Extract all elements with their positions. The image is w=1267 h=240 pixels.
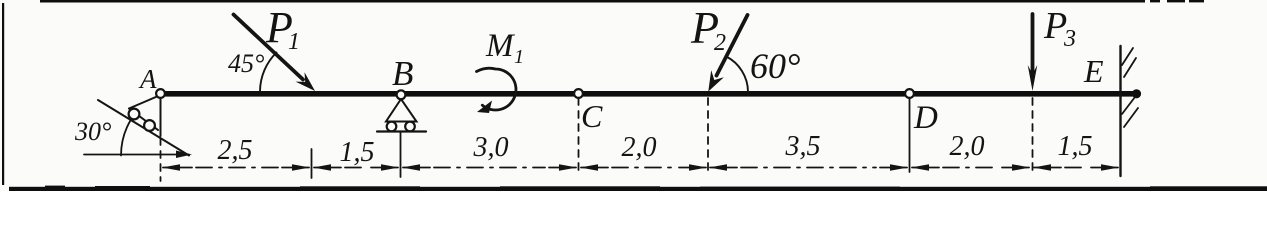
svg-text:3: 3 (1063, 26, 1076, 52)
svg-text:E: E (1083, 53, 1104, 89)
svg-text:2,0: 2,0 (622, 132, 657, 163)
svg-text:30°: 30° (74, 117, 111, 146)
svg-text:1,5: 1,5 (340, 137, 375, 168)
svg-text:C: C (581, 98, 603, 134)
svg-text:M: M (485, 28, 515, 64)
svg-text:1: 1 (288, 29, 300, 55)
svg-text:1,5: 1,5 (1058, 131, 1093, 162)
svg-text:3,0: 3,0 (473, 132, 509, 163)
svg-text:2,0: 2,0 (950, 131, 985, 162)
svg-text:2,5: 2,5 (218, 135, 253, 166)
svg-text:45°: 45° (228, 49, 264, 78)
svg-text:B: B (392, 54, 413, 93)
svg-text:2: 2 (714, 30, 726, 56)
svg-text:60°: 60° (750, 46, 800, 86)
svg-text:A: A (138, 64, 157, 94)
svg-text:3,5: 3,5 (785, 131, 821, 162)
svg-text:1: 1 (514, 46, 524, 68)
svg-text:D: D (913, 100, 938, 136)
